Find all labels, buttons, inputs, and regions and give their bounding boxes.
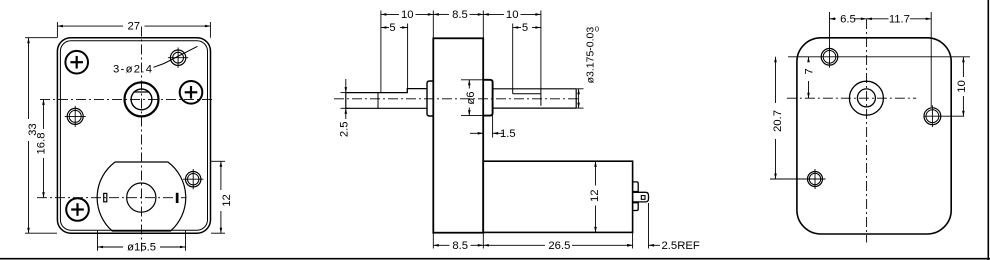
drawing frame bottom border	[0, 258, 990, 260]
dim 16.8 arrows	[42, 99, 45, 105]
dim 33 line	[28, 38, 30, 119]
dim ø3.175 line	[578, 89, 580, 108]
dim 8.5 bottom line	[433, 244, 449, 246]
rear right hole centerline	[924, 115, 964, 117]
worm shaft step line	[377, 93, 379, 109]
dim ø6 line	[468, 80, 470, 89]
svg-text:2.5: 2.5	[339, 121, 351, 137]
dim 2.5REF line	[649, 244, 661, 246]
dim ø15.5 extension lines	[97, 230, 99, 251]
ext line x433.3 above	[432, 11, 434, 39]
gearbox front plate outline	[57, 38, 210, 234]
motor terminal right	[176, 193, 178, 202]
screw head S3 cross	[71, 208, 84, 210]
screw head S2 cross	[185, 91, 198, 93]
rear plate outline	[797, 38, 951, 234]
vertical centerline (front view)	[141, 27, 143, 252]
svg-text:10: 10	[401, 9, 414, 21]
screw head S3 circle	[66, 198, 89, 221]
ext line gearbox left down	[432, 233, 434, 249]
screw head S1 cross	[70, 61, 83, 63]
dim 10 left line	[381, 13, 399, 15]
dim 1.5 ext lines	[482, 118, 484, 138]
svg-text:ø3.175-0.03: ø3.175-0.03	[585, 27, 597, 84]
motor terminal lug	[633, 192, 649, 202]
dim 10 rear line	[962, 57, 964, 77]
dim 27 extension line left	[56, 22, 58, 38]
shaft D-flat chord	[134, 91, 149, 93]
svg-text:ø15.5: ø15.5	[127, 242, 156, 254]
output shaft side view	[493, 88, 577, 90]
shaft centerline (side view)	[334, 98, 581, 100]
motor horizontal centerline (front view)	[37, 197, 187, 199]
dim 26.5 arrows	[483, 244, 489, 247]
dim 26.5 line	[483, 244, 545, 246]
dim 27 line	[57, 25, 123, 27]
dim 5 right arrows	[513, 26, 519, 29]
svg-text:7: 7	[804, 68, 816, 74]
dim 20.7 line	[775, 57, 777, 103]
svg-text:16.8: 16.8	[36, 133, 48, 155]
dim 11.7 arrows	[866, 18, 872, 21]
svg-text:27: 27	[128, 21, 141, 33]
ext line motor right down	[632, 232, 634, 248]
dim 12 extension top	[211, 160, 225, 162]
dim ø3.175 ticks	[576, 88, 583, 90]
mounting hole H3 (bottom right)	[186, 172, 201, 187]
ext line x483.3 above	[482, 11, 484, 39]
svg-text:ø6: ø6	[465, 91, 477, 104]
svg-text:5: 5	[389, 22, 395, 34]
svg-text:8.5: 8.5	[452, 9, 468, 21]
rear boss inner circle	[857, 89, 875, 107]
screw head S1 circle	[65, 51, 88, 74]
svg-text:10: 10	[956, 80, 968, 93]
dim ø15.5 line	[98, 246, 124, 248]
rear boss centerline horizontal	[787, 97, 916, 99]
rear hole bottom-left	[808, 172, 823, 187]
dim 12 side line	[595, 161, 597, 185]
svg-text:1.5: 1.5	[500, 128, 516, 140]
motor end tab top	[633, 182, 639, 192]
dim 12 side arrows	[594, 161, 597, 167]
dim 10 right line	[483, 13, 504, 15]
svg-text:5: 5	[522, 22, 528, 34]
dim 7 line	[808, 57, 810, 62]
dim 8.5 top line	[433, 13, 449, 15]
dim 7 arrows	[807, 57, 810, 63]
dim 33 extension bottom	[25, 232, 57, 234]
svg-text:10: 10	[506, 9, 519, 21]
rear hole right	[924, 108, 941, 125]
dim 2.5 arrows	[345, 87, 348, 93]
gearbox body side view	[433, 38, 483, 232]
dim ø3.175 arrows	[577, 89, 580, 95]
dim 6.5 arrows	[830, 18, 836, 21]
ext line terminal tip down	[648, 203, 650, 249]
dim 6.5 ext	[829, 12, 831, 48]
motor body outline (front view)	[97, 162, 186, 231]
svg-text:2.5REF: 2.5REF	[662, 240, 700, 252]
dim 8.5 top arrows	[433, 13, 439, 16]
dim 27 arrows	[57, 25, 63, 28]
ext line x380.9	[380, 11, 382, 93]
rear hole top-left	[821, 49, 838, 66]
rear boss outer circle	[849, 81, 883, 115]
dim 5 right line	[513, 27, 521, 29]
dim 10 rear arrows	[962, 57, 965, 63]
dim 5 left arrows	[381, 26, 387, 29]
output shaft flat	[513, 93, 541, 95]
dim 2.5REF arrows	[627, 244, 633, 247]
motor body side view	[483, 161, 632, 232]
mounting hole H2 (mid left)	[67, 108, 83, 124]
rear bottom hole centerline	[770, 178, 826, 180]
worm shaft left section	[346, 89, 427, 109]
leader line for 3-ø2.4	[154, 46, 198, 67]
dim 11.7 line	[866, 18, 888, 20]
output shaft hole circle	[131, 89, 152, 110]
dim 16.8 line	[43, 99, 45, 129]
ext line x512.7	[512, 24, 514, 89]
dim 1.5 arrows	[478, 132, 484, 135]
gearbox front plate inner edge	[60, 41, 207, 231]
drawing frame right border	[987, 0, 989, 260]
dim 2.5 ticks	[341, 92, 351, 94]
ext line x407.6	[407, 24, 409, 89]
ext line gearbox right down	[482, 232, 484, 248]
dim 12 arrows	[220, 161, 223, 167]
svg-text:20.7: 20.7	[772, 110, 784, 132]
dim 5 left line	[381, 27, 389, 29]
dim 33 extension top	[25, 37, 57, 39]
motor terminal left	[104, 193, 107, 201]
dim 11.7 ext	[930, 12, 932, 107]
motor end tab bottom	[633, 203, 639, 211]
shaft flange at gearbox left face	[427, 81, 433, 116]
dim 33 arrows	[27, 38, 30, 44]
dim ø15.5 arrows	[98, 246, 104, 249]
dim ø6 arrows	[468, 80, 471, 86]
svg-text:11.7: 11.7	[889, 13, 910, 25]
svg-text:8.5: 8.5	[452, 240, 468, 252]
dim 10 left arrows	[381, 13, 387, 16]
rear top hole centerline	[788, 56, 970, 58]
dim 12 extension bottom	[211, 232, 225, 234]
output hub ø6	[483, 80, 492, 116]
svg-text:0: 0	[595, 25, 599, 34]
dim 2.5 line	[345, 79, 347, 93]
dim 20.7 arrows	[774, 57, 777, 63]
motor shaft circle (front view)	[127, 183, 156, 212]
dim 27 extension line right	[209, 22, 211, 38]
output shaft boss outer circle	[125, 82, 159, 116]
dim ø6 ext lines	[461, 79, 483, 81]
svg-text:12: 12	[589, 189, 601, 202]
rear vertical centerline	[866, 19, 868, 243]
mounting hole H1 (top right)	[170, 50, 185, 65]
svg-text:12: 12	[221, 194, 233, 207]
dim 1.5 line	[470, 132, 483, 134]
terminal lug hole	[641, 196, 645, 200]
dim 6.5 line	[830, 18, 837, 20]
ext line x540.9	[540, 11, 542, 89]
screw head S2 circle	[180, 81, 203, 104]
svg-text:6.5: 6.5	[840, 13, 856, 25]
dim 12 line	[220, 161, 222, 190]
svg-text:26.5: 26.5	[548, 240, 570, 252]
dim 10 right arrows	[483, 13, 489, 16]
dim 8.5 bottom arrows	[433, 244, 439, 247]
shaft horizontal centerline (front view)	[40, 98, 215, 100]
